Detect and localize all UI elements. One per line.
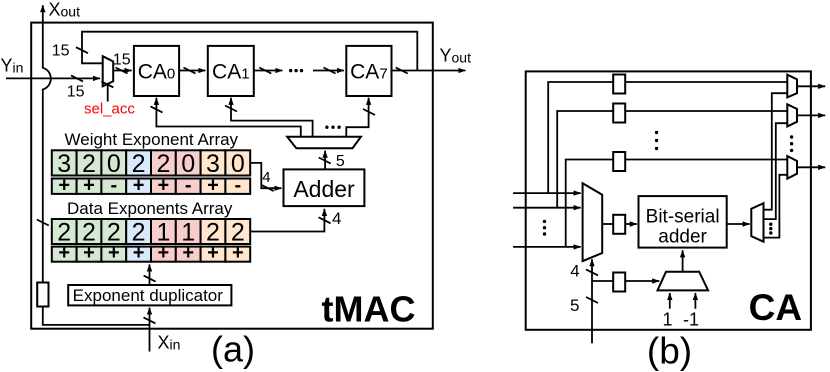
svg-text:+: + xyxy=(158,174,170,196)
svg-text:(b): (b) xyxy=(647,331,692,372)
svg-text:-: - xyxy=(185,174,192,196)
svg-text:-: - xyxy=(234,174,241,196)
svg-text:4: 4 xyxy=(262,169,270,186)
svg-text:-: - xyxy=(110,174,117,196)
svg-text:+: + xyxy=(158,242,170,264)
svg-text:+: + xyxy=(133,174,145,196)
svg-text:5: 5 xyxy=(336,153,345,170)
svg-text:+: + xyxy=(108,242,120,264)
svg-text:tMAC: tMAC xyxy=(322,289,416,330)
svg-text:15: 15 xyxy=(67,84,85,101)
svg-text:+: + xyxy=(58,174,70,196)
svg-text:+: + xyxy=(133,242,145,264)
svg-text:Xout: Xout xyxy=(49,0,81,20)
svg-text:Yin: Yin xyxy=(1,56,24,76)
svg-text:1: 1 xyxy=(662,310,672,330)
svg-text:4: 4 xyxy=(570,261,579,280)
svg-text:Bit-serial: Bit-serial xyxy=(646,206,720,227)
svg-text:Weight Exponent Array: Weight Exponent Array xyxy=(65,130,239,149)
svg-text:Exponent duplicator: Exponent duplicator xyxy=(73,286,224,305)
svg-text:(a): (a) xyxy=(211,329,255,370)
svg-text:15: 15 xyxy=(52,43,70,60)
svg-text:5: 5 xyxy=(570,296,579,315)
svg-text:adder: adder xyxy=(658,226,707,247)
svg-text:4: 4 xyxy=(332,209,341,228)
svg-text:-1: -1 xyxy=(683,310,699,330)
svg-text:15: 15 xyxy=(113,52,131,69)
svg-text:Xin: Xin xyxy=(158,332,181,352)
svg-text:+: + xyxy=(83,242,95,264)
svg-text:+: + xyxy=(182,242,194,264)
svg-text:+: + xyxy=(232,242,244,264)
svg-text:+: + xyxy=(83,174,95,196)
svg-text:Yout: Yout xyxy=(440,46,472,66)
svg-text:Adder: Adder xyxy=(293,176,355,202)
svg-text:sel_acc: sel_acc xyxy=(84,101,135,118)
svg-text:+: + xyxy=(58,242,70,264)
svg-text:Data Exponents Array: Data Exponents Array xyxy=(67,199,233,218)
svg-text:+: + xyxy=(207,174,219,196)
svg-text:+: + xyxy=(207,242,219,264)
svg-text:CA: CA xyxy=(749,287,802,328)
